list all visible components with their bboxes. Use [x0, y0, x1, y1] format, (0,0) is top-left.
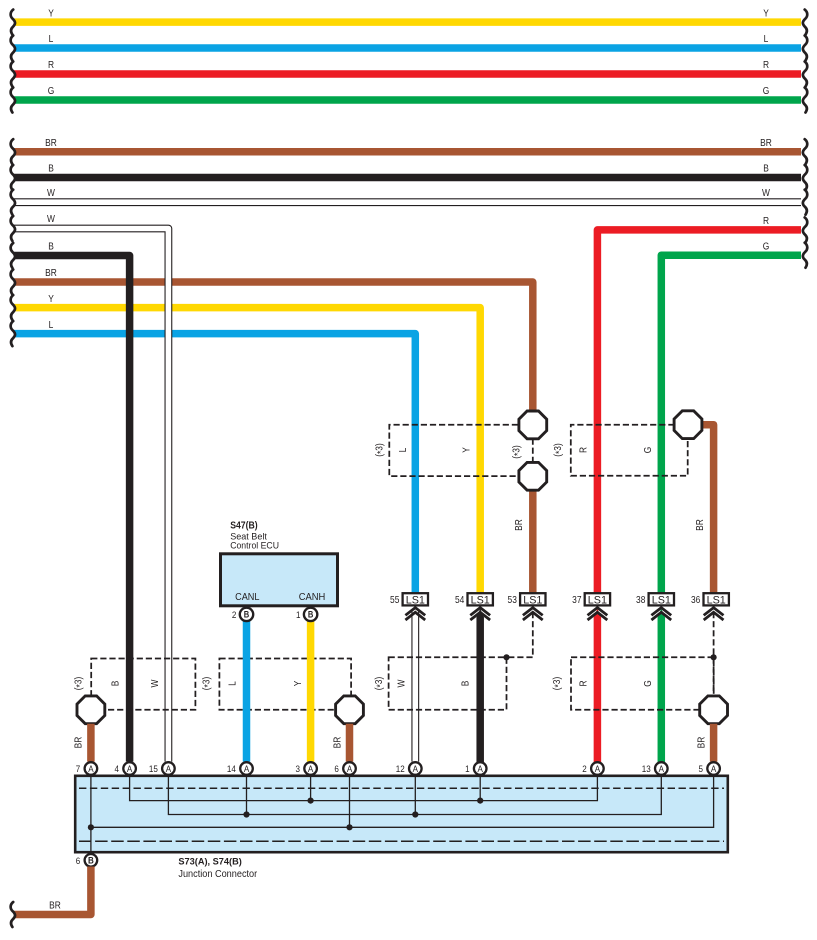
svg-text:53: 53: [508, 594, 517, 605]
svg-text:Y: Y: [48, 293, 54, 304]
svg-text:LS1: LS1: [471, 594, 490, 606]
svg-text:38: 38: [636, 594, 645, 605]
svg-text:BR: BR: [73, 736, 84, 748]
svg-text:B: B: [110, 681, 121, 687]
svg-text:6: 6: [76, 855, 81, 866]
svg-text:Y: Y: [763, 8, 769, 19]
svg-text:L: L: [49, 319, 54, 330]
svg-text:4: 4: [115, 763, 120, 774]
svg-text:LS1: LS1: [523, 594, 542, 606]
svg-text:B: B: [88, 855, 94, 866]
svg-text:CANH: CANH: [299, 592, 326, 603]
svg-text:LS1: LS1: [707, 594, 726, 606]
svg-text:BR: BR: [514, 519, 525, 531]
svg-text:BR: BR: [694, 519, 705, 531]
svg-text:R: R: [48, 60, 54, 71]
svg-text:12: 12: [396, 763, 405, 774]
svg-text:L: L: [227, 681, 238, 686]
svg-text:G: G: [763, 241, 770, 252]
svg-text:2: 2: [232, 609, 237, 620]
svg-text:A: A: [308, 763, 313, 774]
svg-text:W: W: [149, 679, 160, 687]
svg-text:A: A: [244, 763, 249, 774]
svg-text:(*3): (*3): [373, 677, 385, 691]
svg-text:(*3): (*3): [551, 677, 563, 691]
svg-text:1: 1: [465, 763, 470, 774]
svg-text:3: 3: [296, 763, 301, 774]
svg-text:A: A: [659, 763, 664, 774]
svg-text:A: A: [478, 763, 483, 774]
svg-text:B: B: [244, 609, 249, 620]
svg-text:W: W: [47, 187, 55, 198]
svg-text:B: B: [48, 241, 54, 252]
svg-text:W: W: [47, 213, 55, 224]
svg-text:W: W: [762, 187, 770, 198]
svg-text:BR: BR: [696, 736, 707, 748]
svg-text:14: 14: [227, 763, 236, 774]
svg-text:(*3): (*3): [73, 677, 85, 691]
svg-text:A: A: [127, 763, 132, 774]
svg-text:B: B: [763, 163, 769, 174]
svg-text:BR: BR: [760, 137, 772, 148]
svg-text:55: 55: [390, 594, 399, 605]
svg-text:(*3): (*3): [201, 677, 213, 691]
svg-text:BR: BR: [45, 268, 57, 279]
svg-text:CANL: CANL: [235, 592, 260, 603]
svg-text:37: 37: [572, 594, 581, 605]
svg-text:R: R: [763, 60, 769, 71]
svg-text:G: G: [48, 86, 55, 97]
svg-text:LS1: LS1: [652, 594, 671, 606]
svg-text:G: G: [763, 86, 770, 97]
svg-text:Y: Y: [292, 681, 303, 687]
svg-text:6: 6: [334, 763, 339, 774]
svg-text:5: 5: [699, 763, 704, 774]
svg-text:(*3): (*3): [552, 443, 564, 457]
svg-text:(*3): (*3): [374, 443, 386, 457]
svg-text:2: 2: [582, 763, 587, 774]
svg-text:S73(A), S74(B): S73(A), S74(B): [178, 857, 241, 868]
svg-text:BR: BR: [49, 900, 61, 911]
svg-text:G: G: [642, 680, 653, 687]
svg-text:Y: Y: [461, 447, 472, 453]
svg-text:A: A: [166, 763, 171, 774]
svg-text:L: L: [398, 448, 409, 453]
svg-text:W: W: [396, 679, 407, 687]
svg-text:B: B: [308, 609, 313, 620]
svg-text:1: 1: [296, 609, 301, 620]
svg-text:BR: BR: [45, 137, 57, 148]
svg-text:A: A: [88, 763, 93, 774]
svg-text:54: 54: [455, 594, 464, 605]
svg-text:Control ECU: Control ECU: [230, 541, 279, 552]
svg-text:R: R: [763, 215, 769, 226]
svg-text:Y: Y: [48, 8, 54, 19]
svg-text:LS1: LS1: [406, 594, 425, 606]
svg-text:L: L: [764, 34, 769, 45]
svg-text:R: R: [578, 447, 589, 453]
svg-text:A: A: [413, 763, 418, 774]
svg-text:36: 36: [691, 594, 700, 605]
svg-text:A: A: [347, 763, 352, 774]
svg-text:B: B: [460, 681, 471, 687]
svg-text:13: 13: [642, 763, 651, 774]
svg-text:15: 15: [149, 763, 158, 774]
svg-text:G: G: [642, 447, 653, 454]
svg-text:A: A: [595, 763, 600, 774]
svg-text:(*3): (*3): [511, 445, 523, 459]
svg-text:R: R: [578, 680, 589, 686]
svg-text:LS1: LS1: [588, 594, 607, 606]
svg-text:B: B: [48, 163, 54, 174]
svg-text:BR: BR: [332, 736, 343, 748]
svg-text:L: L: [49, 34, 54, 45]
svg-text:A: A: [711, 763, 716, 774]
svg-text:7: 7: [76, 763, 81, 774]
svg-text:Junction Connector: Junction Connector: [178, 869, 257, 880]
